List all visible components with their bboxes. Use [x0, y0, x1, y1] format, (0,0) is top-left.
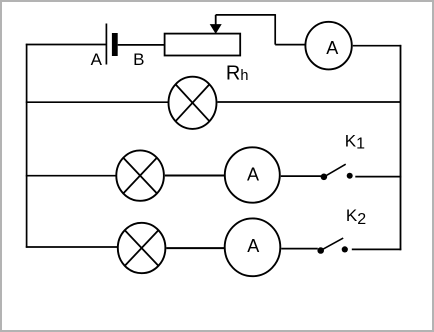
- switch K1: [321, 164, 353, 180]
- wire switch K2 to right: [352, 248, 401, 250]
- rheostat wiper arrow: [210, 15, 222, 34]
- svg-text:A: A: [91, 50, 103, 69]
- lamp L3: [118, 223, 166, 273]
- wire wiper to top: [216, 14, 276, 16]
- wire top-left to battery: [26, 44, 106, 46]
- lamp L1: [169, 77, 217, 129]
- wire top corner down: [274, 14, 276, 44]
- wire ammeter A3 to switch K2: [281, 248, 318, 250]
- wire row2 right: [218, 101, 401, 103]
- wire left vertical: [26, 44, 28, 248]
- wire row4 left: [26, 246, 117, 248]
- wire battery to rheostat: [118, 44, 165, 46]
- wire ammeter A2 to switch K1: [281, 175, 321, 177]
- svg-text:B: B: [133, 50, 144, 69]
- svg-text:A: A: [326, 38, 338, 58]
- ammeter A1 (top): [305, 22, 351, 70]
- lamp L2: [116, 150, 164, 200]
- wire lamp L2 to ammeter A2: [165, 175, 224, 177]
- ammeter A3: [225, 218, 281, 276]
- wire right vertical: [400, 45, 402, 250]
- wire row3 left: [26, 175, 116, 177]
- wire switch K1 to right: [355, 176, 401, 178]
- wire to ammeter A1: [275, 44, 305, 46]
- rheostat Rh body: [165, 34, 241, 56]
- svg-text:A: A: [247, 236, 259, 256]
- ammeter A2: [225, 147, 280, 202]
- battery cell: [106, 24, 117, 65]
- wire ammeter A1 to right: [353, 45, 401, 47]
- wire lamp L3 to ammeter A3: [166, 247, 224, 249]
- switch K2: [317, 238, 347, 254]
- svg-text:A: A: [247, 164, 259, 184]
- wire row2 left: [26, 101, 168, 103]
